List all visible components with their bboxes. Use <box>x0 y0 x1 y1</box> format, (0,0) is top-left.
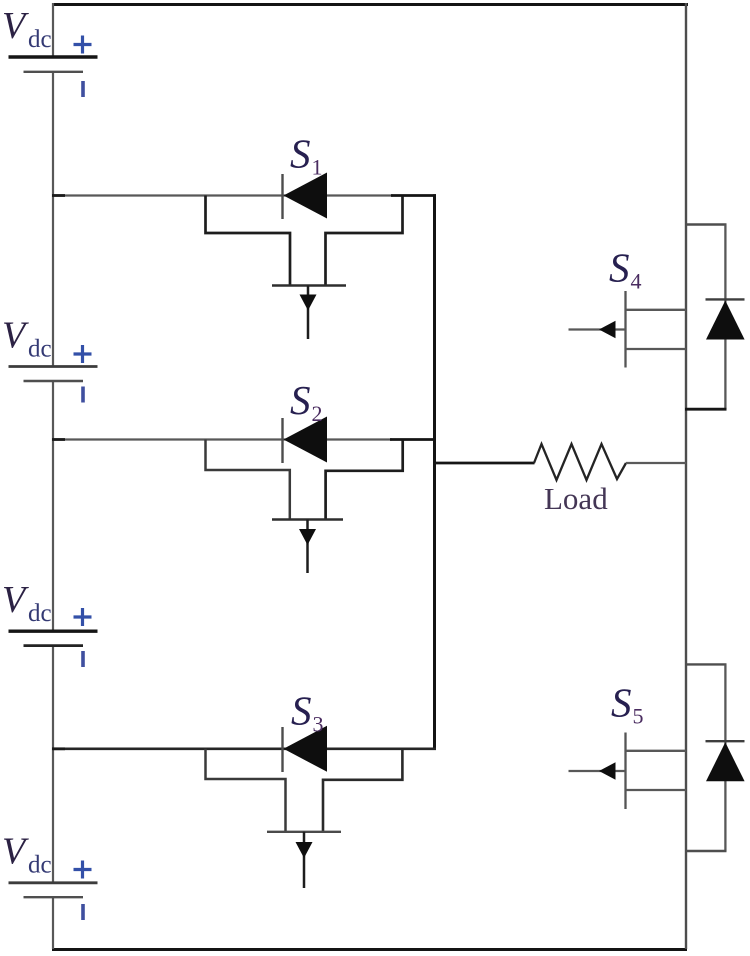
transistor S5 lower lead <box>626 789 687 791</box>
svg-text:dc: dc <box>28 852 52 879</box>
S3 row junction tick <box>52 747 65 750</box>
label S2 <box>290 377 323 426</box>
transistor S3 left source step <box>206 749 286 832</box>
battery V1 minus mark <box>81 81 85 97</box>
diode D3 cathode bar <box>281 727 283 772</box>
label S4 <box>609 245 642 294</box>
battery V1 plus sign <box>74 36 92 54</box>
transistor S4 gate bar <box>624 291 626 368</box>
transistor S2 gate arrowhead <box>299 529 316 545</box>
transistor S2 gate lead <box>306 520 309 574</box>
diode D4 cathode bar <box>706 298 745 300</box>
S1 row wire right <box>327 194 393 196</box>
wire left bus segment 5 <box>52 897 54 949</box>
battery V4 (Vdc) top plate <box>9 881 98 884</box>
battery V2 plus sign <box>74 345 92 363</box>
svg-text:S: S <box>609 245 630 291</box>
svg-text:5: 5 <box>633 704 644 729</box>
battery V3 plus sign <box>74 608 92 626</box>
svg-text:S: S <box>290 377 311 423</box>
svg-text:3: 3 <box>313 712 324 737</box>
battery V1 label Vdc <box>2 5 52 53</box>
wire top border <box>52 3 688 6</box>
battery V4 minus mark <box>81 904 85 920</box>
battery V4 plus sign <box>74 861 92 879</box>
diode D3 triangle <box>284 726 328 772</box>
wire left bus segment 1 <box>52 3 54 57</box>
wire left bus segment 3 <box>52 381 54 631</box>
diode D4 branch bottom link <box>685 408 727 411</box>
transistor S3 gate arrowhead <box>296 842 313 858</box>
svg-text:dc: dc <box>28 26 52 53</box>
diode D5 branch vertical <box>724 664 726 851</box>
transistor S4 gate lead wire <box>569 328 626 330</box>
diode D4 branch vertical <box>724 225 726 410</box>
S1 row wire black corner segment <box>391 194 436 197</box>
svg-text:V: V <box>2 579 29 621</box>
transistor S3 gate lead <box>303 832 306 888</box>
S3 row wire <box>53 747 436 750</box>
S1 row wire left <box>53 194 286 196</box>
svg-text:V: V <box>2 5 29 47</box>
diode D1 cathode bar <box>281 174 283 219</box>
load wire from middle bus <box>435 462 535 465</box>
svg-text:S: S <box>290 131 311 177</box>
label S3 <box>291 688 324 737</box>
diode D5 branch bottom link <box>685 850 727 852</box>
diode D2 cathode bar <box>281 418 283 463</box>
resistor Load zigzag <box>534 444 626 480</box>
battery V4 bottom plate <box>24 896 84 898</box>
S2 row wire left <box>53 438 286 440</box>
battery V2 label Vdc <box>2 315 52 363</box>
wire right bus <box>685 3 687 949</box>
S1 row junction tick <box>52 194 65 197</box>
wire left bus segment 2 <box>52 72 54 367</box>
transistor S4 upper lead <box>626 309 687 311</box>
battery V1 bottom plate <box>24 71 84 73</box>
transistor S1 gate lead <box>307 286 310 340</box>
diode D2 triangle <box>284 417 328 463</box>
battery V2 bottom plate <box>24 380 84 382</box>
transistor S2 gate bar <box>272 518 343 521</box>
transistor S5 gate bar <box>624 733 626 810</box>
svg-text:S: S <box>291 688 312 734</box>
transistor S2 right drain step <box>326 441 403 520</box>
transistor S5 gate lead wire <box>569 770 626 772</box>
diode D4 branch top link <box>686 223 727 225</box>
diode D5 cathode bar <box>706 740 745 742</box>
battery V3 minus mark <box>81 651 85 667</box>
transistor S4 gate arrowhead <box>599 321 616 339</box>
battery V2 (Vdc) top plate <box>9 365 98 368</box>
wire middle bus <box>433 194 436 750</box>
load wire to right bus <box>626 462 686 464</box>
transistor S4 lower lead <box>626 348 687 350</box>
diode D5 branch top link <box>686 663 727 665</box>
battery V3 label Vdc <box>2 579 52 627</box>
label S1 <box>290 131 323 180</box>
diode D1 triangle <box>284 173 328 219</box>
wire left bus segment 4 <box>52 646 54 883</box>
battery V3 bottom plate <box>24 644 84 647</box>
transistor S1 gate arrowhead <box>300 295 317 311</box>
svg-text:2: 2 <box>312 401 323 426</box>
diode D4 triangle <box>706 301 745 340</box>
transistor S5 upper lead <box>626 750 687 752</box>
S2 row junction tick <box>52 438 65 441</box>
svg-text:S: S <box>611 680 632 726</box>
svg-text:Load: Load <box>544 481 608 516</box>
transistor S5 gate arrowhead <box>599 762 616 780</box>
diode D5 triangle <box>706 742 745 781</box>
svg-text:4: 4 <box>631 269 642 294</box>
label S5 <box>611 680 644 729</box>
svg-text:dc: dc <box>28 600 52 627</box>
transistor S1 right drain step <box>326 197 403 286</box>
wire bottom border <box>52 948 687 951</box>
battery V2 minus mark <box>81 387 85 403</box>
transistor S2 left source step <box>206 440 290 520</box>
svg-text:dc: dc <box>28 336 52 363</box>
S2 row wire right <box>327 438 392 440</box>
battery V3 (Vdc) top plate <box>9 630 98 633</box>
transistor S3 gate bar <box>267 831 341 833</box>
svg-text:V: V <box>2 315 29 357</box>
transistor S1 left source step <box>206 196 291 286</box>
svg-text:V: V <box>2 831 29 873</box>
battery V4 label Vdc <box>2 831 52 879</box>
battery V1 (Vdc) top plate <box>9 55 98 58</box>
S2 row wire black corner segment <box>390 438 436 441</box>
svg-text:1: 1 <box>312 155 323 180</box>
transistor S3 right drain step <box>323 750 402 832</box>
transistor S1 gate bar <box>272 284 346 287</box>
